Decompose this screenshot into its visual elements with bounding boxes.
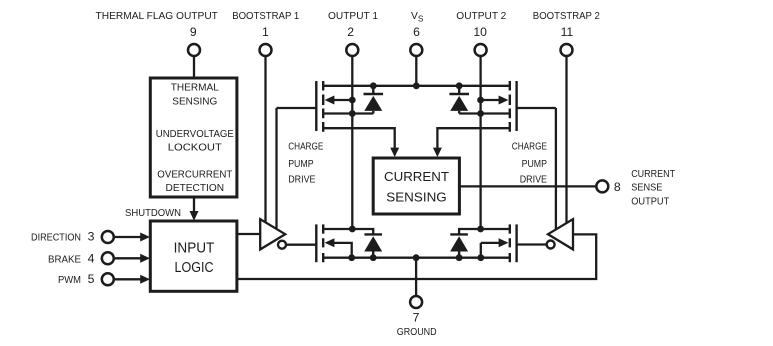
arrowhead Q3 body [325,238,335,247]
pin 7 circle [410,296,422,308]
transistor Q2 (top-right DMOS) [510,81,517,132]
svg-text:CHARGE: CHARGE [512,141,547,152]
pin 10 circle [475,44,487,56]
junction dot out1 drain Q3 [349,226,356,233]
block input logic [150,221,237,291]
svg-text:CURRENT: CURRENT [384,170,449,184]
op-amp U2 (right driver buffer) [547,219,573,249]
pin 3 circle [102,231,114,243]
wire input logic to driver U2 [237,234,596,279]
wire Vs vertical [415,57,417,86]
arrowhead pin3 [140,233,150,242]
pin 8 circle [596,180,608,192]
diode D2 (top-right) [449,86,469,114]
svg-text:3: 3 [88,230,95,244]
wire pin4 arrow shaft [115,257,142,259]
wire bootstrap2 down to driver U2 [565,57,567,224]
svg-text:BOOTSTRAP 1: BOOTSTRAP 1 [232,11,299,22]
pin 5 circle [102,273,114,285]
svg-text:SHUTDOWN: SHUTDOWN [125,208,181,219]
svg-text:OUTPUT 2: OUTPUT 2 [456,11,506,22]
svg-text:SENSING: SENSING [386,191,447,205]
svg-text:4: 4 [88,252,95,266]
svg-text:OUTPUT 1: OUTPUT 1 [328,11,378,22]
svg-text:PUMP: PUMP [288,159,314,170]
junction dot out2 source [477,110,484,117]
svg-text:2: 2 [347,25,354,39]
wire Q4 body stub [481,243,506,258]
svg-text:5: 5 [88,272,95,286]
arrowhead Q4 body [499,238,509,247]
block current sensing [373,158,459,214]
wire Q2 body stub [481,99,506,101]
svg-text:THERMAL: THERMAL [171,82,219,93]
wire pin9 to thermal block [193,57,195,78]
junction dot Vs-left diode [370,82,377,89]
pin 4 circle [102,252,114,264]
diode D4 (bottom-right) [450,234,468,257]
junction dot Vs-right diode [456,82,463,89]
junction dot rail Q4 body [477,254,484,261]
svg-text:PWM: PWM [58,275,81,286]
svg-text:8: 8 [614,180,621,194]
svg-text:10: 10 [473,25,487,39]
wire Q2 sense to current sensing [437,128,509,149]
wire Q1 source stub [323,112,373,114]
wire Q4 drain stub [459,229,510,234]
transistor Q3 (bottom-left DMOS) [316,224,323,262]
wire pin5 arrow shaft [115,278,142,280]
pin 6 circle [410,44,422,56]
wire pin3 arrow shaft [115,236,142,238]
svg-text:9: 9 [190,25,197,39]
svg-text:1: 1 [262,25,269,39]
wire Vs rail [323,85,510,87]
pin 1 circle [260,44,272,56]
wire input logic to driver U1 [237,233,261,235]
transistor Q4 (bottom-right DMOS) [510,224,517,262]
junction dot rail Q3 body [348,254,355,261]
svg-text:DIRECTION: DIRECTION [31,232,81,243]
label charge pump drive right [512,141,547,185]
svg-text:BRAKE: BRAKE [48,255,81,266]
wire current sense output to pin 8 [459,185,596,187]
svg-text:7: 7 [413,310,420,324]
junction dot rail D4 anode [456,254,463,261]
arrowhead Q1 body [325,96,335,105]
wire U1 bubble to Q3 gate [287,244,317,246]
wire bottom source rail [323,257,510,259]
svg-text:THERMAL FLAG OUTPUT: THERMAL FLAG OUTPUT [96,11,219,22]
svg-text:GROUND: GROUND [397,327,437,338]
svg-text:OVERCURRENT: OVERCURRENT [157,170,233,181]
wire gate stub top-right [517,107,556,109]
junction dot out2 body [477,97,484,104]
junction dot Vs pin [413,82,420,89]
op-amp U1 (left driver buffer) [260,219,286,249]
svg-text:INPUT: INPUT [174,241,215,257]
arrowhead sense right [433,148,442,157]
wire Q2 source stub [459,112,510,114]
svg-text:6: 6 [413,25,420,39]
svg-text:PUMP: PUMP [522,159,548,170]
svg-text:BOOTSTRAP 2: BOOTSTRAP 2 [533,11,600,22]
svg-text:LOGIC: LOGIC [175,260,214,276]
wire gate stub top-left [277,107,317,109]
wire Q1 sense to current sensing [323,128,395,149]
arrowhead sense left [390,148,399,157]
junction dot out2 drain Q4 [477,226,484,233]
wire shutdown [193,197,195,213]
svg-text:DRIVE: DRIVE [288,175,315,186]
arrowhead pin4 [140,254,150,263]
pin 2 circle [346,44,358,56]
wire charge pump line left [275,108,277,230]
svg-text:OUTPUT: OUTPUT [631,197,670,208]
svg-text:DETECTION: DETECTION [166,183,225,194]
block thermal sensing / undervoltage / overcurrent [150,78,237,197]
svg-text:CURRENT: CURRENT [631,169,676,180]
arrowhead shutdown [190,211,199,221]
svg-text:SENSING: SENSING [172,96,217,107]
junction dot out1 body [349,97,356,104]
node label CURRENT SENSE OUTPUT [631,169,676,208]
svg-text:UNDERVOLTAGE: UNDERVOLTAGE [156,129,234,140]
wire bootstrap1 down to driver U1 [264,57,266,224]
wire ground stub [415,258,417,296]
junction dot out1 source [349,110,356,117]
wire Q3 drain stub [323,229,373,234]
svg-text:DRIVE: DRIVE [520,175,547,186]
arrowhead pin5 [140,275,150,284]
transistor Q1 (top-left DMOS) [316,81,323,132]
wire output2 vertical [479,57,481,229]
diode D1 (top-left) [364,86,384,114]
junction dot rail D3 anode [370,254,377,261]
wire Q1 body stub [327,99,352,101]
wire charge pump line right [555,108,557,229]
svg-text:VS: VS [411,11,424,24]
svg-text:11: 11 [561,25,574,39]
svg-text:SENSE: SENSE [631,183,662,194]
wire U2 bubble to Q4 gate [517,243,547,245]
wire output1 vertical [351,57,353,229]
pin 11 circle [561,44,573,56]
svg-text:LOCKOUT: LOCKOUT [168,143,223,154]
arrowhead Q2 body [499,96,509,105]
svg-text:CHARGE: CHARGE [288,141,323,152]
label charge pump drive left [288,141,323,185]
junction dot rail ground [413,254,420,261]
wire Q3 body stub [327,243,352,258]
diode D3 (bottom-left) [364,234,382,257]
pin 9 circle [188,44,200,56]
